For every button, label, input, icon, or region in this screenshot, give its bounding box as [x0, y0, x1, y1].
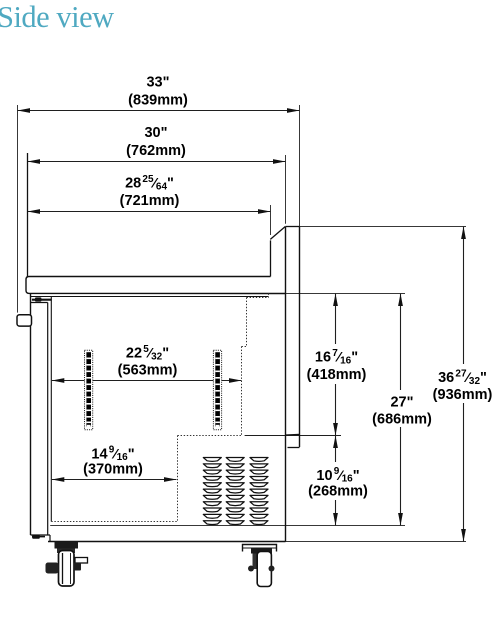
svg-text:(936mm): (936mm): [433, 387, 493, 403]
svg-text:149⁄16": 149⁄16": [91, 445, 134, 464]
svg-text:(839mm): (839mm): [128, 92, 188, 108]
svg-text:(762mm): (762mm): [126, 143, 186, 159]
svg-text:109⁄16": 109⁄16": [316, 466, 359, 485]
svg-text:(563mm): (563mm): [118, 362, 178, 378]
svg-text:(721mm): (721mm): [120, 193, 180, 209]
svg-text:(268mm): (268mm): [308, 484, 368, 500]
svg-text:167⁄16": 167⁄16": [315, 348, 358, 367]
svg-text:2825⁄64": 2825⁄64": [125, 174, 174, 193]
svg-text:(418mm): (418mm): [307, 367, 367, 383]
svg-text:27": 27": [390, 395, 413, 411]
svg-text:33": 33": [146, 75, 169, 91]
svg-text:(686mm): (686mm): [372, 411, 432, 427]
svg-text:30": 30": [144, 125, 167, 141]
svg-text:3627⁄32": 3627⁄32": [438, 368, 487, 387]
svg-text:225⁄32": 225⁄32": [126, 344, 169, 363]
svg-text:(370mm): (370mm): [83, 462, 143, 478]
